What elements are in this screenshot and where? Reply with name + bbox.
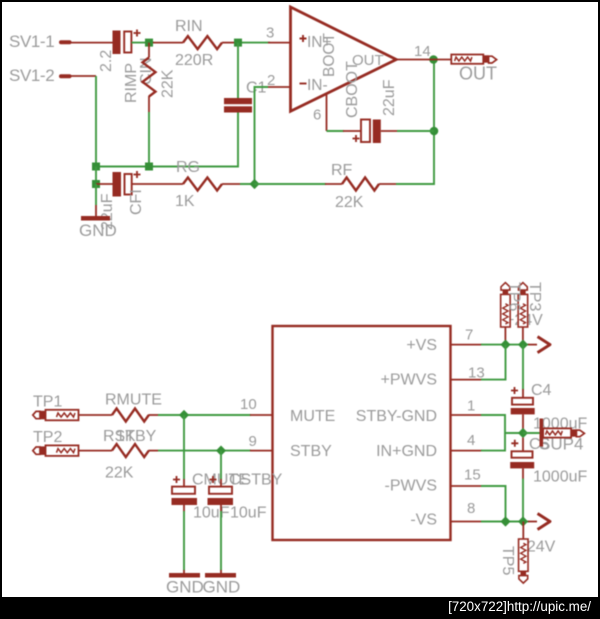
svg-text:IN+GND: IN+GND: [376, 443, 437, 460]
ground GND under CMUTE: [166, 573, 204, 597]
svg-text:8: 8: [467, 500, 475, 517]
connector TP5: [519, 522, 529, 584]
wire RMUTE to pin 10: [158, 414, 251, 416]
wire TP2 to RSTBY: [79, 450, 113, 452]
wire CMUTE to ground: [183, 505, 185, 574]
wire C4 to mid node: [522, 414, 524, 433]
junction feedback node: [249, 179, 259, 189]
svg-text:1: 1: [467, 398, 475, 415]
wire pin 13 to +VS rail: [481, 345, 506, 380]
svg-text:SV1-1: SV1-1: [9, 32, 54, 51]
pin 9 stub: [250, 450, 273, 452]
svg-text:2.2: 2.2: [98, 50, 115, 72]
ground GND top: [79, 216, 117, 240]
connector TP3: [518, 283, 528, 345]
connector TP1: [33, 394, 79, 421]
svg-text:1000uF: 1000uF: [533, 469, 587, 486]
svg-text:22uF: 22uF: [381, 79, 398, 116]
resistor RSTBY 22K: [103, 428, 158, 482]
svg-text:RIN: RIN: [175, 18, 203, 35]
wire node +IN to pin 3: [242, 42, 270, 44]
wire RIMP to rail: [148, 112, 150, 167]
wire +VS rail: [481, 344, 529, 346]
wire CIN to node IN: [132, 42, 155, 44]
capacitor CIN 2.2uF: [98, 30, 155, 86]
wire mid node to SUP4: [523, 432, 540, 434]
junction RIMP rail: [145, 163, 153, 171]
wire node to CFI: [96, 183, 113, 185]
svg-text:GND: GND: [203, 578, 241, 597]
junction CFI node: [92, 180, 100, 188]
watermark: [448, 599, 591, 614]
wire MUTE node down to CMUTE: [183, 415, 185, 487]
svg-text:15: 15: [464, 467, 481, 484]
svg-text:7: 7: [465, 327, 473, 344]
svg-text:OUT: OUT: [459, 64, 497, 84]
svg-text:-VS: -VS: [410, 512, 437, 529]
wire pin 1 to mid node: [481, 415, 519, 433]
svg-text:+PWVS: +PWVS: [381, 372, 437, 389]
svg-text:14: 14: [414, 43, 431, 60]
wire feedback node to pin 2: [255, 87, 269, 184]
capacitor CFI 22uF: [99, 171, 145, 230]
arrow -VS supply: [538, 514, 551, 530]
svg-text:TP1: TP1: [33, 394, 62, 411]
wire RG to feedback node: [240, 183, 258, 185]
junction +VS at TP6: [500, 340, 510, 350]
connector SUP4: [539, 419, 584, 454]
junction node IN: [145, 39, 153, 47]
svg-text:2: 2: [267, 72, 275, 89]
resistor RIMP 22K: [123, 43, 177, 112]
capacitor C5 1000uF: [510, 438, 587, 486]
svg-text:MUTE: MUTE: [290, 408, 335, 425]
wire feedback node to RF: [255, 183, 327, 185]
svg-text:GND: GND: [166, 578, 204, 597]
svg-text:CSTBY: CSTBY: [229, 472, 283, 489]
pin 14 wire: [396, 59, 433, 61]
svg-text:STBY: STBY: [290, 443, 332, 460]
junction mid node: [518, 428, 528, 438]
junction MUTE node: [179, 410, 189, 420]
junction +VS at TP3: [518, 340, 528, 350]
wire CSTBY to ground: [220, 505, 222, 574]
wire rail to arrow: [528, 344, 537, 346]
op-amp U1: [291, 7, 397, 111]
wire -VS rail: [481, 521, 529, 523]
svg-text:10uF: 10uF: [230, 505, 267, 522]
pin 4 stub: [451, 450, 482, 452]
junction -VS at pin 15 riser: [500, 516, 510, 526]
svg-text:22K: 22K: [335, 194, 364, 211]
svg-text:22K: 22K: [160, 69, 177, 98]
wire C1 to input ground rail: [96, 113, 238, 167]
svg-text:10: 10: [240, 396, 257, 413]
wire output node to OUT jack: [434, 59, 452, 61]
svg-text:RMUTE: RMUTE: [105, 392, 162, 409]
pin 15 stub: [451, 485, 482, 487]
capacitor C1: [224, 80, 267, 113]
IC box U2: [273, 326, 451, 540]
wire STBY node down to CSTBY: [220, 451, 222, 487]
pin 1 stub: [451, 414, 482, 416]
pin 10 stub: [250, 414, 273, 416]
wire RF to output node: [396, 60, 434, 185]
svg-text:C4: C4: [531, 382, 552, 399]
pin 7 stub: [451, 344, 482, 346]
wire node +IN down to C1: [237, 43, 239, 98]
wire pin 15 to -VS rail: [481, 486, 506, 522]
svg-text:TP6: TP6: [506, 282, 523, 311]
svg-text:RIMP: RIMP: [123, 63, 140, 103]
resistor RG 1K: [132, 159, 240, 210]
wire RSTBY to pin 9: [158, 450, 251, 452]
junction output node at CBOOT: [430, 127, 439, 136]
ground GND under CSTBY: [203, 573, 241, 597]
junction SV1-2 rail: [92, 163, 100, 171]
svg-text:-PWVS: -PWVS: [385, 478, 437, 495]
capacitor CSTBY 10uF: [208, 472, 283, 522]
svg-text:1K: 1K: [175, 193, 195, 210]
wire CBOOT lead left: [343, 130, 361, 132]
svg-text:6: 6: [313, 107, 321, 124]
junction STBY node: [216, 446, 226, 456]
junction node +IN: [234, 39, 242, 47]
svg-text:GND: GND: [79, 221, 117, 240]
svg-text:STBY-GND: STBY-GND: [356, 408, 437, 425]
junction -VS at C5: [518, 516, 528, 526]
wire CBOOT to output node: [381, 130, 434, 132]
pin 6 stub: [326, 94, 328, 132]
svg-text:9: 9: [249, 433, 257, 450]
svg-text:TP5: TP5: [499, 546, 516, 575]
svg-text:RF: RF: [331, 162, 353, 179]
wire CFI node to ground: [95, 184, 97, 216]
svg-text:10uF: 10uF: [193, 505, 230, 522]
svg-text:CFI: CFI: [128, 189, 145, 215]
svg-text:CBOOT: CBOOT: [344, 61, 361, 118]
svg-text:+VS: +VS: [406, 337, 437, 354]
pin 3 stub: [268, 42, 291, 44]
wire pin 6 to CBOOT: [327, 130, 345, 132]
resistor RF 22K: [325, 162, 396, 211]
svg-text:22K: 22K: [105, 465, 134, 482]
connector TP2: [33, 429, 79, 456]
svg-text:C1: C1: [246, 80, 267, 97]
pin 2 stub: [266, 86, 291, 88]
capacitor C4 1000uF: [511, 382, 588, 433]
wire +VS to C4: [522, 345, 524, 398]
svg-text:BOOT: BOOT: [321, 33, 338, 77]
resistor RIN 220R: [153, 18, 238, 69]
svg-text:3: 3: [266, 25, 274, 42]
svg-text:TP2: TP2: [33, 429, 62, 446]
wire C5 to -VS rail: [522, 468, 524, 521]
svg-text:SV1-2: SV1-2: [9, 66, 54, 85]
svg-text:IN-: IN-: [307, 77, 328, 94]
capacitor CBOOT 22uF: [344, 61, 398, 143]
pin 13 stub: [451, 379, 482, 381]
wire pin 4 to mid node: [481, 433, 505, 451]
wire rail down to CFI node: [95, 167, 97, 185]
connector OUT jack: [451, 55, 497, 84]
svg-text:RG: RG: [176, 159, 200, 176]
svg-text:220R: 220R: [175, 52, 213, 69]
capacitor CMUTE 10uF: [172, 472, 249, 522]
wire SV1-2 to rail: [71, 75, 96, 77]
junction output node at pin 14: [429, 55, 438, 64]
wire -VS rail to arrow: [528, 521, 537, 523]
connector SV1-1: [9, 32, 72, 51]
svg-text:RSTBY: RSTBY: [103, 428, 157, 445]
wire SV1-1 to CIN: [71, 42, 113, 44]
resistor RMUTE 1K: [105, 392, 162, 446]
connector SV1-2: [9, 66, 72, 85]
connector TP6: [501, 283, 511, 345]
pin 8 stub: [451, 521, 482, 523]
wire SV1-2 down: [95, 76, 97, 167]
svg-text:TP3: TP3: [526, 282, 543, 311]
arrow +VS supply: [538, 337, 551, 353]
svg-text:4: 4: [467, 432, 475, 449]
wire TP1 to RMUTE: [79, 414, 113, 416]
